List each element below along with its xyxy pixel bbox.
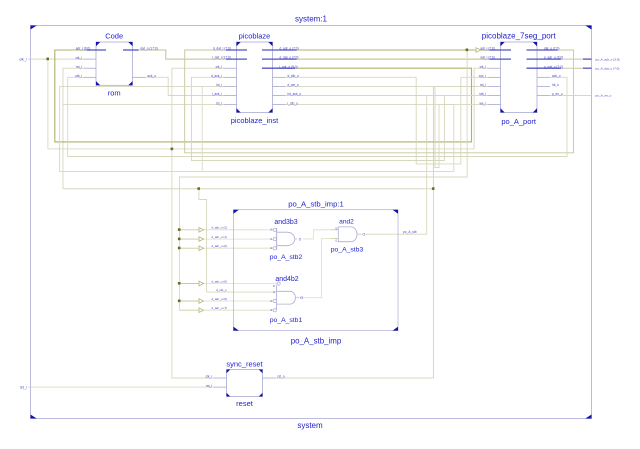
wire tap row I2 and3b3 <box>179 247 199 249</box>
input extension bar <box>276 228 278 250</box>
svg-text:sync_reset: sync_reset <box>226 359 263 368</box>
net clk : branch to picoblaze clk_i <box>172 67 224 69</box>
pin clk_i <box>84 58 97 60</box>
junction reset run / riser <box>432 187 435 190</box>
pin d_we_o <box>273 85 286 87</box>
pin adr_i(9:0) <box>87 49 107 51</box>
input extension bar <box>275 285 277 310</box>
svg-text:d_adr_o (0): d_adr_o (0) <box>212 244 228 248</box>
pin rst_i <box>84 67 97 69</box>
svg-text:rst_i: rst_i <box>216 101 222 105</box>
wire buffer to and4b2 I2 <box>204 300 274 302</box>
junction taps on vertical 179.4 <box>178 228 181 231</box>
svg-text:d_adr_o (1): d_adr_o (1) <box>212 235 228 239</box>
corner marker top-right <box>585 26 591 30</box>
svg-text:d_we_o: d_we_o <box>288 83 299 87</box>
net reset : horizontal run to left <box>63 188 433 190</box>
net clk : branch to po_A_port clk_i <box>474 68 487 149</box>
net rst : input wire to sync_reset rst_i <box>28 386 214 388</box>
svg-text:reset: reset <box>236 399 254 408</box>
net reset : sync_reset rst_o to riser <box>276 377 434 379</box>
gate and2 po_A_stb3 <box>331 219 366 254</box>
net d_dat bus : picoblaze d_dat_o to po_A_port dat_i <box>297 58 490 60</box>
sub-schematic frame po_A_stb_imp:1 <box>233 210 398 331</box>
net reset : riser <box>433 86 487 378</box>
net i_adr bus loop : picoblaze i_adr_o to rom adr_i <box>55 50 472 142</box>
svg-text:adr_i (7:0): adr_i (7:0) <box>480 47 495 51</box>
gate and3b3 po_A_stb2 <box>270 219 303 261</box>
pin p_en_o <box>537 95 550 97</box>
net i_stb loop : riser to picoblaze int row <box>201 86 203 171</box>
buffer d_adr_o(5) <box>199 299 204 304</box>
net rom ack_o to picoblaze i_ack_i <box>146 77 224 95</box>
bubble input I2 <box>273 247 276 250</box>
pin d_dat_o(7:0) <box>262 58 297 60</box>
svg-text:dat_o (17:0): dat_o (17:0) <box>141 47 158 51</box>
pin i_dat_i(17:0) <box>226 58 247 60</box>
port po_A_dat_o(7:0) <box>583 67 592 69</box>
wire buffer to and3b3 I1 <box>204 238 274 240</box>
wire tap row I0 and4b2 <box>179 283 199 285</box>
block instance reset (sync_reset) <box>206 359 285 408</box>
svg-text:po_A_stb: po_A_stb <box>403 230 417 234</box>
pin d_adr_o(7:0) <box>262 49 297 51</box>
svg-text:d_dat_o (7:0): d_dat_o (7:0) <box>280 56 299 60</box>
pin int_ack_o <box>273 95 286 97</box>
svg-text:int_o: int_o <box>552 83 559 87</box>
buffer d_adr_o(1) <box>199 237 204 242</box>
svg-text:clk_i: clk_i <box>480 65 487 69</box>
svg-text:po_A_adr_o (3:0): po_A_adr_o (3:0) <box>596 57 620 61</box>
net po ack loop : po_A_port ack_o to picoblaze d_ack_i <box>68 77 567 156</box>
svg-text:and2: and2 <box>339 219 354 226</box>
svg-text:d_dat_i (7:0): d_dat_i (7:0) <box>213 47 231 51</box>
svg-text:i_stb_o: i_stb_o <box>287 101 298 105</box>
svg-text:picoblaze_7seg_port: picoblaze_7seg_port <box>482 31 557 40</box>
pin dat_o(17:0) <box>123 49 139 51</box>
svg-text:d_adr_o (7): d_adr_o (7) <box>212 306 228 310</box>
bubble input I0 <box>273 228 276 231</box>
net reset : branch picoblaze rst_i <box>63 104 224 106</box>
svg-text:po_A_stb3: po_A_stb3 <box>331 246 364 253</box>
wire tap row I2 and4b2 <box>179 300 199 302</box>
svg-text:rst_i: rst_i <box>20 385 27 389</box>
corner marker top-left <box>31 26 37 30</box>
gate and4b2 po_A_stb1 <box>270 276 303 324</box>
svg-text:i_ack_i: i_ack_i <box>212 92 223 96</box>
pin p_dat_o(7:0) <box>527 67 562 69</box>
svg-text:rom: rom <box>108 89 121 98</box>
svg-text:d_ack_i: d_ack_i <box>211 74 222 78</box>
net reset : left riser to rom rst_i and picoblaze rst_i <box>63 68 84 189</box>
bubble input I3 <box>273 309 276 312</box>
svg-text:po_A_stb_imp:1: po_A_stb_imp:1 <box>288 200 344 209</box>
net d_adr taps : drop to gate input buffers <box>179 50 467 310</box>
pin dat_i(7:0) <box>490 58 512 60</box>
svg-text:clk_i: clk_i <box>19 57 26 61</box>
block instance po_A_port (picoblaze_7seg_port) <box>479 31 563 126</box>
wire buffer to and3b3 I2 <box>204 247 274 249</box>
svg-text:po_A_stb1: po_A_stb1 <box>270 317 303 324</box>
pin rst_i <box>488 85 501 87</box>
svg-text:i_dat_i (17:0): i_dat_i (17:0) <box>212 56 231 60</box>
svg-text:and4b2: and4b2 <box>275 276 298 283</box>
svg-text:int_ack_o: int_ack_o <box>288 92 302 96</box>
svg-text:O: O <box>363 233 366 237</box>
wire tap row I3 and4b2 <box>179 309 199 311</box>
net po_A_adr_o output <box>561 58 583 60</box>
block instance rom (Code) <box>75 31 157 97</box>
net po_A_stb : and2 output to po_A_port stb_i <box>366 96 488 235</box>
svg-text:d_stb_o: d_stb_o <box>288 74 300 78</box>
svg-text:po_A_stb2: po_A_stb2 <box>270 254 303 261</box>
svg-text:system: system <box>297 421 323 430</box>
block instance picoblaze_inst (picoblaze) <box>211 31 301 125</box>
svg-text:clk_i: clk_i <box>206 375 213 379</box>
junction clk input <box>46 58 49 61</box>
corner marker bottom-left <box>31 415 37 419</box>
pin d_stb_o <box>273 76 286 78</box>
svg-text:Code: Code <box>105 31 123 40</box>
net d_stb_o : drop to and4b2 <box>199 189 277 292</box>
pin clk_i <box>488 67 501 69</box>
svg-text:clk_i: clk_i <box>76 56 83 60</box>
pin stb_i <box>488 95 501 97</box>
net we : picoblaze d_we_o to po_A_port we_i <box>286 86 488 167</box>
pin clk_i <box>214 377 227 379</box>
output stub <box>295 238 298 240</box>
bubble input I2 <box>273 299 276 302</box>
pin d_ack_i <box>224 76 237 78</box>
buffer on po_A_port adr_i bus <box>476 48 481 53</box>
svg-text:i_adr_o (9:0): i_adr_o (9:0) <box>279 65 297 69</box>
svg-text:d_adr_o (7:0): d_adr_o (7:0) <box>280 47 299 51</box>
net po dat loop : po_A_port dat_o to picoblaze d_dat_i <box>185 50 574 153</box>
pin d_dat_i(7:0) <box>226 49 247 51</box>
net clk : horizontal distribution run <box>48 148 474 150</box>
svg-text:dat_i (7:0): dat_i (7:0) <box>480 56 494 60</box>
pin i_ack_i <box>224 95 237 97</box>
buffer d_adr_o(7) <box>199 308 204 313</box>
svg-text:picoblaze_inst: picoblaze_inst <box>231 116 279 125</box>
svg-text:d_adr_o (2): d_adr_o (2) <box>212 226 228 230</box>
pin rst_o <box>263 377 276 379</box>
junction reset run / d_stb drop <box>197 187 200 190</box>
bubble input I0 (top) <box>277 282 280 285</box>
svg-text:picoblaze: picoblaze <box>239 31 271 40</box>
net clk : branch to sync_reset clk_i <box>172 68 214 378</box>
svg-text:d_adr_o (5): d_adr_o (5) <box>212 297 228 301</box>
svg-text:cyc_i: cyc_i <box>479 74 487 78</box>
svg-text:po_A_port: po_A_port <box>501 117 537 126</box>
net cyc : picoblaze d_stb_o to po_A_port cyc_i <box>286 77 488 164</box>
svg-text:d_stb_o: d_stb_o <box>216 288 227 292</box>
svg-text:rst_i: rst_i <box>76 65 82 69</box>
junction d_adr row / tap drop <box>466 49 469 52</box>
wire and4b2 output to and2 I1 <box>299 239 331 298</box>
svg-text:p_adr_o (3:0): p_adr_o (3:0) <box>544 56 563 60</box>
pin i_adr_o(9:0) <box>262 67 295 69</box>
svg-text:d_adr_o (6): d_adr_o (6) <box>212 279 228 283</box>
svg-text:O: O <box>300 296 303 300</box>
svg-text:adr_i (9:0): adr_i (9:0) <box>76 47 91 51</box>
pin ack_o <box>133 76 146 78</box>
svg-text:rst_i: rst_i <box>206 384 212 388</box>
input stubs <box>331 229 339 231</box>
svg-text:stb_i: stb_i <box>479 92 486 96</box>
svg-text:clk_i: clk_i <box>216 65 223 69</box>
pin rst_i <box>224 104 237 106</box>
svg-text:and3b3: and3b3 <box>274 219 297 226</box>
pin i_stb_o <box>273 104 286 106</box>
pin adr_i(7:0) <box>490 49 512 51</box>
pin clk_i <box>224 67 237 69</box>
pin stb_i <box>84 76 97 78</box>
svg-text:po_A_stb_imp: po_A_stb_imp <box>291 337 342 346</box>
svg-text:rst_o: rst_o <box>278 375 285 379</box>
net clk : input wire <box>28 58 84 60</box>
wire tap row I0 and3b3 <box>179 229 199 231</box>
svg-text:p_en_o: p_en_o <box>552 92 563 96</box>
net i_stb loop : picoblaze i_stb_o to rom stb_i <box>60 86 454 171</box>
buffer d_adr_o(6) <box>199 281 204 286</box>
wire buffer to and4b2 I3 <box>204 309 274 311</box>
net po_A_dat_o output <box>561 67 583 69</box>
svg-text:ack_o: ack_o <box>552 74 561 78</box>
svg-text:int_i: int_i <box>216 83 222 87</box>
svg-text:ack_o: ack_o <box>148 74 157 78</box>
buffer d_adr_o(0) <box>199 246 204 251</box>
net rom dat_o bus to picoblaze i_dat_i <box>139 50 227 59</box>
svg-text:system:1: system:1 <box>295 15 328 24</box>
wire and3b3 output to and2 I0 <box>303 230 330 239</box>
pin dat_o(7:0) <box>527 49 558 51</box>
wire buffer to and4b2 I0 <box>204 283 278 285</box>
port po_A_adr_o(3:0) <box>583 58 592 60</box>
buffer d_adr_o(2) <box>199 228 204 233</box>
output stub <box>295 297 299 299</box>
wire buffer to and3b3 I0 <box>204 229 274 231</box>
junction clk band / sync branch <box>171 148 174 151</box>
bubble input I1 <box>273 238 276 241</box>
net po_A_en_o output <box>550 95 592 97</box>
svg-text:rst_i: rst_i <box>480 83 486 87</box>
pin ack_o <box>537 76 550 78</box>
svg-text:dat_o (7:0): dat_o (7:0) <box>544 47 559 51</box>
pin int_i <box>224 85 237 87</box>
svg-text:po_A_en_o: po_A_en_o <box>596 94 612 98</box>
svg-text:stb_i: stb_i <box>75 74 82 78</box>
pin int_o <box>537 85 550 87</box>
wire tap row I1 and3b3 <box>179 238 199 240</box>
svg-text:we_i: we_i <box>479 101 486 105</box>
pin rst_i <box>214 386 227 388</box>
pin cyc_i <box>488 76 501 78</box>
net d_adr bus : picoblaze d_adr_o to po_A_port adr_i <box>297 49 477 51</box>
net clk : vertical drop from input <box>47 59 49 149</box>
svg-text:po_A_dat_o (7:0): po_A_dat_o (7:0) <box>596 66 620 70</box>
pin p_adr_o(3:0) <box>527 58 562 60</box>
output stub <box>357 233 362 235</box>
corner marker bottom-right <box>585 415 591 419</box>
net int_ack loop : picoblaze int_ack_o to picoblaze int_i <box>192 77 445 160</box>
svg-text:p_dat_o (7:0): p_dat_o (7:0) <box>544 65 563 69</box>
pin we_i <box>488 104 501 106</box>
